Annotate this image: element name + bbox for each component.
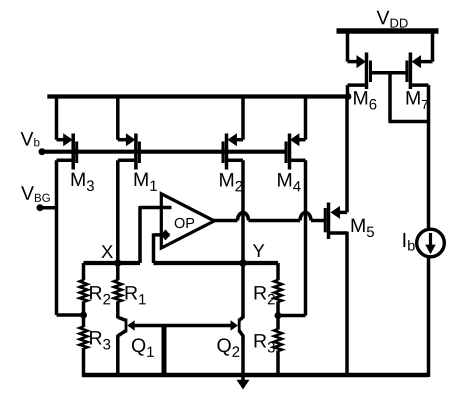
wire gate link down bbox=[388, 71, 392, 121]
transistor M1 bbox=[116, 97, 120, 140]
label Q1 bbox=[132, 338, 145, 355]
node M6 drain junction bbox=[345, 93, 352, 100]
wire M4 drain to right R junction bbox=[278, 314, 306, 318]
wire M3 drain / VBG vertical bbox=[55, 160, 59, 315]
label M2 bbox=[220, 173, 233, 186]
resistor R2 left bbox=[80, 280, 88, 302]
net label Vb bbox=[21, 132, 34, 145]
label M1 bbox=[135, 173, 148, 186]
transistor M2 bbox=[241, 97, 245, 140]
wire Q1 emitter to Q2 emitter bbox=[133, 324, 233, 328]
wire ground rail bbox=[83, 373, 429, 377]
VDD power rail bbox=[337, 28, 439, 34]
transistor M3 bbox=[55, 97, 59, 140]
wire Y horizontal bbox=[154, 261, 279, 265]
wire M4 drain lead bbox=[290, 159, 306, 163]
junction node X bbox=[114, 259, 121, 266]
ground bbox=[237, 380, 250, 390]
label R2 right bbox=[255, 286, 267, 299]
transistor M4 bbox=[304, 97, 308, 140]
wire Vb gate bus bbox=[42, 150, 286, 154]
node label X bbox=[101, 245, 113, 258]
wire M7 drain down bbox=[427, 85, 431, 123]
wire M6 gate to M7 gate bbox=[371, 71, 407, 75]
wire Y to R2 right bbox=[276, 263, 280, 280]
wire M4 drain down bbox=[304, 160, 308, 315]
wire X horizontal bbox=[84, 261, 141, 265]
wire M6 drain lead bbox=[348, 83, 367, 87]
wire R3 left to ground rail bbox=[82, 348, 86, 377]
resistor R3 left bbox=[80, 327, 88, 349]
wire X to R2 left bbox=[82, 263, 86, 280]
wire Q1 to ground rail bbox=[116, 335, 120, 377]
wire node Y to lower input bbox=[152, 233, 156, 263]
wire R1 to Q1 bbox=[116, 301, 120, 318]
wire R2 to R3 left bbox=[82, 301, 86, 315]
transistor Q2 bbox=[241, 262, 245, 318]
label R2 left bbox=[90, 286, 102, 299]
wire node X to upper input bbox=[138, 206, 142, 263]
wire op-amp output to M5 gate bbox=[213, 219, 238, 223]
wire Ib to ground rail bbox=[427, 257, 431, 377]
transistor M5 bbox=[338, 211, 347, 215]
wire M5 drain lead bbox=[329, 231, 348, 235]
wire to R2 R3 junction bbox=[57, 313, 86, 317]
wire M2 drain lead bbox=[227, 159, 244, 163]
resistor R1 bbox=[114, 280, 122, 302]
op-amp U1 OP bbox=[161, 194, 214, 248]
wire M1 drain lead bbox=[118, 159, 136, 163]
wire R3 right to ground rail bbox=[276, 351, 280, 378]
transistor M7 bbox=[431, 29, 435, 62]
input marker diamond bbox=[161, 229, 171, 240]
transistor Q1 bbox=[118, 317, 126, 320]
resistor R3 right bbox=[274, 329, 282, 351]
wire emitter line to ground rail bbox=[162, 326, 167, 378]
wire rail to M5 source bbox=[345, 97, 349, 213]
transistor M6 bbox=[348, 60, 361, 64]
wire op-amp upper input bbox=[140, 206, 172, 210]
wire M7 drain to Ib bbox=[427, 122, 431, 230]
wire VBG stub bbox=[40, 206, 57, 210]
wire gate link to M7 drain bbox=[389, 120, 429, 124]
wire M6 source to VDD bbox=[346, 29, 350, 62]
resistor R2 right bbox=[274, 280, 282, 302]
label Q2 bbox=[217, 338, 230, 355]
terminal VBG bbox=[37, 204, 44, 211]
label R3 right bbox=[255, 334, 267, 347]
label R3 left bbox=[90, 331, 102, 344]
wire M7 drain lead bbox=[410, 83, 428, 87]
wire op-amp lower input bbox=[154, 233, 170, 237]
label M3 bbox=[72, 173, 85, 186]
wire M5 drain to ground rail bbox=[345, 232, 349, 378]
label M7 bbox=[407, 91, 420, 104]
label Ib bbox=[403, 233, 405, 247]
wire X to R1 bbox=[116, 263, 120, 280]
wire Q2 to ground bbox=[241, 335, 245, 381]
wire M2 drain to node Y bbox=[241, 160, 245, 263]
label R1 bbox=[126, 286, 138, 299]
wire M3 drain lead bbox=[57, 159, 74, 163]
label M4 bbox=[278, 173, 291, 186]
node label Y bbox=[253, 244, 265, 257]
junction node Y bbox=[239, 259, 246, 266]
wire M1 drain to node X bbox=[116, 160, 120, 263]
wire M6 drain to rail bbox=[346, 85, 350, 96]
net label VDD bbox=[377, 11, 390, 24]
terminal Vb bbox=[39, 148, 46, 155]
label M6 bbox=[354, 91, 367, 104]
wire source rail bbox=[47, 94, 348, 98]
junction R2 R3 left bbox=[80, 312, 87, 319]
label M5 bbox=[352, 219, 365, 232]
net label VBG bbox=[21, 186, 34, 199]
wire R2 to R3 right bbox=[276, 301, 280, 315]
current source Ib bbox=[417, 229, 445, 257]
junction R2 R3 right bbox=[275, 312, 282, 319]
